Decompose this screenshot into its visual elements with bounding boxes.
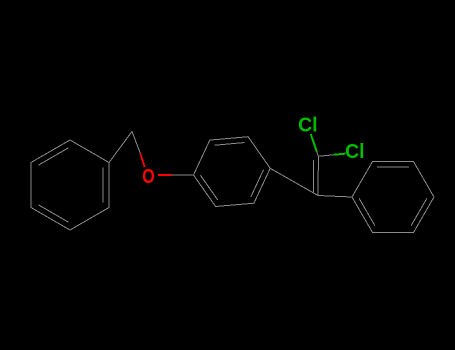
svg-text:Cl: Cl bbox=[298, 114, 317, 136]
svg-text:O: O bbox=[142, 165, 154, 187]
svg-text:Cl: Cl bbox=[345, 141, 364, 163]
